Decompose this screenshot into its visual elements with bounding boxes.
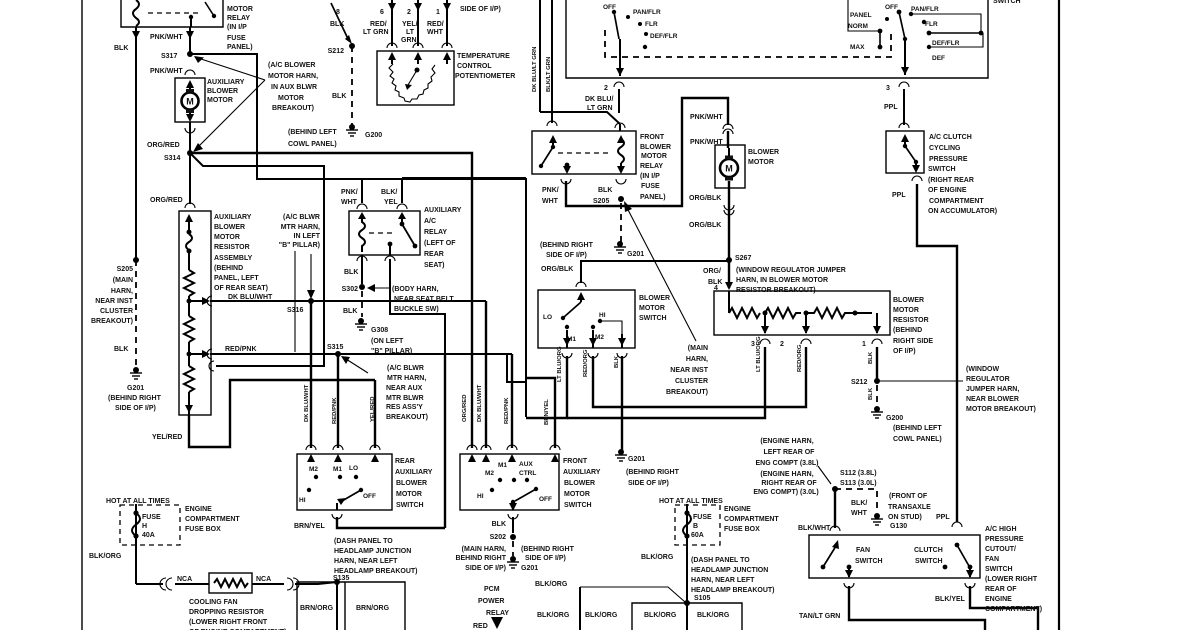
svg-text:G201: G201 <box>127 385 144 392</box>
ground G201 below switch <box>615 449 627 461</box>
svg-text:CUTOUT/: CUTOUT/ <box>985 546 1016 553</box>
relay switch <box>398 212 406 219</box>
wire BLK dashed to G201 left <box>135 260 137 368</box>
svg-text:S267: S267 <box>735 255 751 262</box>
svg-text:DEF/FLR: DEF/FLR <box>932 40 960 47</box>
ground G200 right <box>871 406 883 418</box>
wire DK BLU/WHT y=301 <box>207 296 212 306</box>
svg-text:(BEHIND RIGHT: (BEHIND RIGHT <box>626 469 680 476</box>
svg-text:BLK: BLK <box>343 308 357 315</box>
wire BLK + splice S202 + G201 <box>512 517 514 533</box>
svg-text:PCM: PCM <box>484 586 500 593</box>
svg-text:POWER: POWER <box>478 598 504 605</box>
svg-text:PANEL): PANEL) <box>227 44 253 51</box>
svg-text:G201: G201 <box>627 251 644 258</box>
svg-text:(IN I/P: (IN I/P <box>227 24 247 31</box>
terminal drops <box>764 313 766 333</box>
splice S267 <box>726 257 732 263</box>
svg-text:M: M <box>186 97 194 107</box>
svg-text:YEL/RED: YEL/RED <box>152 434 182 441</box>
svg-text:LT BLU/ORG: LT BLU/ORG <box>557 346 563 382</box>
svg-text:MOTOR: MOTOR <box>748 159 774 166</box>
tap node with arrow east <box>187 299 192 304</box>
left page border <box>81 0 83 630</box>
svg-text:BLOWER: BLOWER <box>564 480 595 487</box>
svg-text:PNK/: PNK/ <box>341 189 358 196</box>
svg-text:WHT: WHT <box>851 510 868 517</box>
pointer arrows to S317 / S314 <box>198 58 265 80</box>
svg-text:DK BLU/LT GRN: DK BLU/LT GRN <box>532 47 538 92</box>
svg-text:PNK/: PNK/ <box>542 187 559 194</box>
cooling fan dropping resistor box <box>209 573 252 593</box>
blower motor switch box <box>538 290 635 348</box>
pointer stub <box>294 251 296 352</box>
svg-text:BLK: BLK <box>330 21 344 28</box>
svg-text:S302: S302 <box>342 286 358 293</box>
svg-text:BRN/YEL: BRN/YEL <box>294 523 325 530</box>
svg-text:CYCLING: CYCLING <box>929 145 961 152</box>
svg-text:OF REAR SEAT): OF REAR SEAT) <box>214 285 268 292</box>
svg-text:HEADLAMP BREAKOUT): HEADLAMP BREAKOUT) <box>691 587 774 594</box>
svg-text:G200: G200 <box>365 132 382 139</box>
svg-text:(RIGHT REAR: (RIGHT REAR <box>928 177 974 184</box>
svg-text:RIGHT SIDE: RIGHT SIDE <box>893 338 933 345</box>
wire NCA to cooling fan dropping resistor <box>136 583 163 585</box>
svg-text:(ON LEFT: (ON LEFT <box>371 338 404 345</box>
svg-text:BLOWER: BLOWER <box>893 297 924 304</box>
splice S316 <box>308 298 314 304</box>
blower motor resistor box <box>714 291 890 335</box>
wire ORG/BLK below motor <box>728 181 730 288</box>
clutch switch exit BLK/YEL <box>969 569 971 577</box>
svg-text:MTR BLWR: MTR BLWR <box>386 395 424 402</box>
svg-text:BLK/ORG: BLK/ORG <box>644 612 677 619</box>
svg-text:(BEHIND RIGHT: (BEHIND RIGHT <box>108 395 162 402</box>
svg-text:BUCKLE SW): BUCKLE SW) <box>394 306 439 313</box>
svg-text:RESISTOR: RESISTOR <box>893 317 929 324</box>
svg-text:BLK/ORG: BLK/ORG <box>89 553 122 560</box>
svg-text:CTRL: CTRL <box>519 470 536 477</box>
svg-text:SIDE OF I/P): SIDE OF I/P) <box>465 565 506 572</box>
splice S315 <box>335 351 341 357</box>
relay K1 coil <box>133 0 139 26</box>
svg-text:SWITCH: SWITCH <box>396 502 424 509</box>
wire jog to x507 <box>507 354 526 382</box>
pointer from body harn text <box>372 287 390 289</box>
svg-text:HEADLAMP JUNCTION: HEADLAMP JUNCTION <box>691 567 768 574</box>
relay K1 box (aux blower motor relay, cut at top) <box>121 0 223 27</box>
svg-text:AUXILIARY: AUXILIARY <box>424 207 462 214</box>
svg-text:BLK/ORG: BLK/ORG <box>697 612 730 619</box>
svg-text:RED/ORG: RED/ORG <box>797 344 803 372</box>
wire PNK/WHT relay to blower motor <box>566 98 728 206</box>
svg-text:M2: M2 <box>485 470 494 477</box>
svg-text:FUSE: FUSE <box>693 514 712 521</box>
svg-text:A/C HIGH: A/C HIGH <box>985 526 1017 533</box>
aux blower motor resistor assembly box <box>179 211 211 415</box>
svg-text:BRN/YEL: BRN/YEL <box>544 399 550 425</box>
bottom left box BRN/ORG <box>297 582 405 630</box>
wire LT BLU/ORG net <box>526 356 567 418</box>
svg-text:FLR: FLR <box>645 21 658 28</box>
svg-text:(LEFT OF: (LEFT OF <box>424 240 456 247</box>
ground G201 left <box>130 367 142 379</box>
svg-text:G308: G308 <box>371 327 388 334</box>
svg-text:BLOWER: BLOWER <box>748 149 779 156</box>
svg-text:MOTOR HARN,: MOTOR HARN, <box>268 73 318 80</box>
wire RED/ORG net <box>593 347 806 407</box>
svg-text:BLK/: BLK/ <box>851 500 867 507</box>
svg-text:PANEL: PANEL <box>850 12 872 19</box>
svg-text:REAR: REAR <box>395 458 415 465</box>
svg-text:COWL PANEL): COWL PANEL) <box>893 436 942 443</box>
pointer from S205 to main harn text <box>625 204 696 341</box>
svg-text:NEAR INST: NEAR INST <box>670 367 708 374</box>
svg-text:YEL: YEL <box>384 199 398 206</box>
svg-text:OFF: OFF <box>885 4 898 11</box>
svg-text:RED: RED <box>473 623 488 630</box>
svg-text:BLOWER: BLOWER <box>207 88 238 95</box>
svg-text:MOTOR: MOTOR <box>278 95 304 102</box>
svg-text:JUMPER HARN,: JUMPER HARN, <box>966 386 1019 393</box>
svg-text:PANEL, LEFT: PANEL, LEFT <box>214 275 259 282</box>
wire BLK from relay <box>135 27 137 260</box>
svg-text:HI: HI <box>599 312 606 319</box>
svg-text:S205: S205 <box>117 266 133 273</box>
svg-text:NCA: NCA <box>177 576 192 583</box>
svg-text:BRN/ORG: BRN/ORG <box>300 605 334 612</box>
svg-text:MTR HARN,: MTR HARN, <box>387 375 426 382</box>
svg-text:FUSE BOX: FUSE BOX <box>724 526 760 533</box>
svg-text:(BODY HARN,: (BODY HARN, <box>392 286 439 293</box>
wire PNK/WHT net from S317 to aux A/C relay <box>190 54 526 417</box>
wires into rear aux switch <box>310 301 312 448</box>
svg-text:(A/C BLOWER: (A/C BLOWER <box>268 62 315 69</box>
front auxiliary blower switch box <box>460 454 559 510</box>
svg-text:HEADLAMP BREAKOUT): HEADLAMP BREAKOUT) <box>334 568 417 575</box>
resistor zigzag 1 <box>184 270 194 296</box>
splice S314 <box>187 150 193 156</box>
svg-text:GRN: GRN <box>401 37 417 44</box>
svg-text:OFF: OFF <box>363 493 376 500</box>
coil <box>186 234 192 250</box>
svg-text:RES ASS'Y: RES ASS'Y <box>386 404 423 411</box>
potentiometer zigzag arc <box>389 64 435 102</box>
svg-text:(A/C BLWR: (A/C BLWR <box>283 214 320 221</box>
svg-text:PRESSURE: PRESSURE <box>929 156 968 163</box>
svg-text:BLK: BLK <box>492 521 506 528</box>
svg-text:(LOWER RIGHT FRONT: (LOWER RIGHT FRONT <box>189 619 268 626</box>
svg-text:(BEHIND LEFT: (BEHIND LEFT <box>893 425 942 432</box>
svg-text:POTENTIOMETER: POTENTIOMETER <box>455 73 515 80</box>
svg-text:2: 2 <box>407 9 411 16</box>
svg-text:LO: LO <box>349 465 358 472</box>
svg-text:(ENGINE HARN,: (ENGINE HARN, <box>760 471 813 478</box>
svg-text:ENGINE: ENGINE <box>724 506 751 513</box>
svg-text:OF ENGINE: OF ENGINE <box>928 187 967 194</box>
svg-text:RELAY: RELAY <box>640 163 663 170</box>
svg-text:MTR HARN,: MTR HARN, <box>281 224 320 231</box>
svg-text:G201: G201 <box>628 456 645 463</box>
svg-text:BLK: BLK <box>344 269 358 276</box>
wire ORG/RED line B: S314 to resistor assembly bottom <box>190 153 324 366</box>
svg-text:S112 (3.8L): S112 (3.8L) <box>840 470 877 477</box>
svg-text:(WINDOW REGULATOR JUMPER: (WINDOW REGULATOR JUMPER <box>736 267 846 274</box>
svg-text:MOTOR: MOTOR <box>227 6 253 13</box>
svg-text:RED/PNK: RED/PNK <box>332 397 338 424</box>
svg-text:BLK/YEL: BLK/YEL <box>935 596 966 603</box>
svg-text:BLK: BLK <box>114 346 128 353</box>
svg-text:REGULATOR: REGULATOR <box>966 376 1010 383</box>
svg-text:ASSEMBLY: ASSEMBLY <box>214 255 253 262</box>
wire YEL/RED from resistor bottom <box>189 380 375 447</box>
fan switch / clutch switch box <box>809 535 980 578</box>
svg-text:YEL/: YEL/ <box>402 21 418 28</box>
svg-text:H: H <box>142 523 147 530</box>
svg-text:FAN: FAN <box>985 556 999 563</box>
svg-text:PNK/WHT: PNK/WHT <box>150 34 183 41</box>
svg-text:AUXILIARY: AUXILIARY <box>563 469 601 476</box>
svg-text:ORG/: ORG/ <box>703 268 721 275</box>
svg-text:ON ACCUMULATOR): ON ACCUMULATOR) <box>928 208 997 215</box>
fan switch exit TAN/LT GRN <box>848 569 850 577</box>
svg-text:COMPARTMENT: COMPARTMENT <box>724 516 779 523</box>
svg-text:NORM: NORM <box>848 23 868 30</box>
svg-text:FRONT: FRONT <box>563 458 588 465</box>
svg-text:40A: 40A <box>142 532 155 539</box>
svg-text:(BEHIND RIGHT: (BEHIND RIGHT <box>540 242 594 249</box>
svg-text:NEAR BLOWER: NEAR BLOWER <box>966 396 1019 403</box>
svg-text:BREAKOUT): BREAKOUT) <box>386 414 428 421</box>
aux A/C relay box <box>349 211 420 255</box>
svg-text:TAN/LT GRN: TAN/LT GRN <box>799 613 840 620</box>
rear aux switch internals <box>307 454 315 462</box>
splice S317 <box>187 51 193 57</box>
svg-text:M2: M2 <box>309 466 318 473</box>
svg-text:RED/: RED/ <box>370 21 387 28</box>
wire BLK below relay <box>357 256 367 261</box>
svg-text:ENGINE: ENGINE <box>185 506 212 513</box>
connector arcs below relay <box>561 179 571 184</box>
svg-text:60A: 60A <box>691 532 704 539</box>
svg-text:1: 1 <box>862 341 866 348</box>
svg-text:TEMPERATURE: TEMPERATURE <box>457 53 510 60</box>
svg-text:BLK: BLK <box>868 351 874 364</box>
svg-text:BLK: BLK <box>598 187 612 194</box>
wire BLK dashed to G200 <box>351 46 353 125</box>
svg-text:PPL: PPL <box>892 192 906 199</box>
svg-text:MOTOR: MOTOR <box>893 307 919 314</box>
wire into S105 from west <box>580 587 685 602</box>
svg-text:FUSE: FUSE <box>227 35 246 42</box>
svg-text:SIDE OF I/P): SIDE OF I/P) <box>460 6 501 13</box>
svg-text:AUXILIARY: AUXILIARY <box>395 469 433 476</box>
svg-text:8: 8 <box>336 9 340 16</box>
svg-text:SWITCH: SWITCH <box>928 166 956 173</box>
svg-text:2: 2 <box>604 85 608 92</box>
svg-text:G200: G200 <box>886 415 903 422</box>
svg-text:BLK/ORG: BLK/ORG <box>537 612 570 619</box>
svg-text:(FRONT OF: (FRONT OF <box>889 493 928 500</box>
svg-text:NCA: NCA <box>256 576 271 583</box>
svg-text:FUSE: FUSE <box>641 183 660 190</box>
svg-text:SIDE OF I/P): SIDE OF I/P) <box>525 555 566 562</box>
svg-text:SWITCH: SWITCH <box>855 558 883 565</box>
svg-text:MOTOR: MOTOR <box>207 97 233 104</box>
resistor zigzag 3 <box>184 366 194 392</box>
svg-text:PANEL): PANEL) <box>640 194 666 201</box>
svg-text:ORG/BLK: ORG/BLK <box>689 195 721 202</box>
dashed vacuum box <box>605 30 891 57</box>
svg-text:DEF/FLR: DEF/FLR <box>650 33 678 40</box>
svg-text:IN AUX BLWR: IN AUX BLWR <box>271 84 317 91</box>
svg-text:M: M <box>725 164 733 174</box>
wire BLK/WHT to fan switch <box>834 489 836 528</box>
svg-text:(WINDOW: (WINDOW <box>966 366 999 373</box>
svg-text:WHT: WHT <box>427 29 444 36</box>
svg-text:ENGINE: ENGINE <box>985 596 1012 603</box>
svg-text:HARN, NEAR LEFT: HARN, NEAR LEFT <box>691 577 755 584</box>
dashed BLK/WHT to G130 <box>835 489 877 513</box>
svg-text:SWITCH: SWITCH <box>639 315 667 322</box>
svg-text:COMPARTMENT: COMPARTMENT <box>185 516 240 523</box>
svg-text:DK BLU/WHT: DK BLU/WHT <box>477 384 483 422</box>
svg-text:LT BLU/ORG: LT BLU/ORG <box>756 336 762 372</box>
svg-text:RED/PNK: RED/PNK <box>504 397 510 424</box>
svg-text:COMPARTMENT): COMPARTMENT) <box>985 606 1042 613</box>
svg-text:DK BLU/WHT: DK BLU/WHT <box>228 294 273 301</box>
svg-text:M1: M1 <box>333 466 342 473</box>
ground G130 <box>871 513 883 525</box>
svg-text:RED/: RED/ <box>427 21 444 28</box>
svg-text:(IN I/P: (IN I/P <box>640 173 660 180</box>
svg-text:FAN: FAN <box>856 547 870 554</box>
rear auxiliary blower motor switch box <box>297 454 392 510</box>
svg-text:MOTOR: MOTOR <box>641 153 667 160</box>
svg-text:SIDE OF I/P): SIDE OF I/P) <box>115 405 156 412</box>
splice S212 top (8 BLK wire) <box>331 3 349 41</box>
svg-text:B: B <box>693 523 698 530</box>
svg-text:BLK/ORG: BLK/ORG <box>641 554 674 561</box>
svg-text:RELAY: RELAY <box>227 15 250 22</box>
svg-text:HI: HI <box>299 497 306 504</box>
wire BRN/YEL to front aux switch <box>526 378 555 448</box>
svg-text:(MAIN: (MAIN <box>688 345 708 352</box>
svg-text:"B" PILLAR): "B" PILLAR) <box>279 242 320 249</box>
svg-text:S212: S212 <box>851 379 867 386</box>
svg-text:(A/C BLWR: (A/C BLWR <box>387 365 424 372</box>
svg-text:RELAY: RELAY <box>424 229 447 236</box>
wire branch to aux A/C relay coil <box>361 179 363 203</box>
wires DK BLU/LT GRN + BLK/LT GRN from top <box>539 0 541 112</box>
svg-text:BLK: BLK <box>614 355 620 368</box>
svg-text:HARN,: HARN, <box>111 288 133 295</box>
svg-text:(DASH PANEL TO: (DASH PANEL TO <box>691 557 750 564</box>
svg-text:M2: M2 <box>595 334 604 341</box>
svg-text:MOTOR: MOTOR <box>639 305 665 312</box>
svg-text:ORG/RED: ORG/RED <box>150 197 183 204</box>
svg-text:COMPARTMENT: COMPARTMENT <box>929 198 984 205</box>
svg-text:SWITCH: SWITCH <box>915 558 943 565</box>
svg-text:FLR: FLR <box>925 21 938 28</box>
svg-text:PNK/WHT: PNK/WHT <box>150 68 183 75</box>
svg-text:BLK/ORG: BLK/ORG <box>535 581 568 588</box>
svg-text:A/C: A/C <box>424 218 436 225</box>
wire BLK to G201 <box>621 356 623 450</box>
blower motor box <box>715 145 745 188</box>
svg-text:PAN/FLR: PAN/FLR <box>911 6 939 13</box>
svg-text:SWITCH: SWITCH <box>564 502 592 509</box>
svg-text:DROPPING RESISTOR: DROPPING RESISTOR <box>189 609 264 616</box>
svg-text:ORG/BLK: ORG/BLK <box>689 222 721 229</box>
connector at y=366 <box>209 361 214 371</box>
aux blower motor symbol <box>182 93 199 110</box>
svg-text:REAR: REAR <box>424 251 444 258</box>
svg-text:YEL/RED: YEL/RED <box>370 396 376 422</box>
svg-text:S212: S212 <box>328 48 344 55</box>
svg-text:(MAIN HARN,: (MAIN HARN, <box>462 546 506 553</box>
potentiometer wiper <box>415 68 420 73</box>
svg-text:BREAKOUT): BREAKOUT) <box>272 105 314 112</box>
svg-text:COOLING FAN: COOLING FAN <box>189 599 238 606</box>
svg-text:PAN/FLR: PAN/FLR <box>633 9 661 16</box>
svg-text:2: 2 <box>780 341 784 348</box>
svg-text:HARN, IN BLOWER MOTOR: HARN, IN BLOWER MOTOR <box>736 277 828 284</box>
svg-text:BEHIND RIGHT: BEHIND RIGHT <box>455 555 506 562</box>
svg-text:NEAR AUX: NEAR AUX <box>386 385 423 392</box>
svg-text:S317: S317 <box>161 53 177 60</box>
svg-text:AUXILIARY: AUXILIARY <box>214 214 252 221</box>
svg-text:CLUTCH: CLUTCH <box>914 547 943 554</box>
svg-text:BLK/: BLK/ <box>381 189 397 196</box>
right page border <box>1058 0 1060 630</box>
pointer from b-pillar text to S316 <box>310 254 312 294</box>
svg-text:PPL: PPL <box>936 514 950 521</box>
svg-text:MOTOR BREAKOUT): MOTOR BREAKOUT) <box>966 406 1036 413</box>
svg-text:NEAR INST: NEAR INST <box>95 298 133 305</box>
svg-text:LT GRN: LT GRN <box>363 29 389 36</box>
svg-text:SWITCH: SWITCH <box>985 566 1013 573</box>
svg-text:(LOWER RIGHT: (LOWER RIGHT <box>985 576 1038 583</box>
svg-text:FUSE: FUSE <box>142 514 161 521</box>
splice S105 <box>684 600 690 606</box>
wire ORG/RED below motor <box>189 122 191 153</box>
relay K1 switch blade <box>205 2 214 16</box>
svg-text:SIDE OF I/P): SIDE OF I/P) <box>546 252 587 259</box>
svg-text:OFF: OFF <box>539 496 552 503</box>
svg-text:SEAT): SEAT) <box>424 262 444 269</box>
svg-text:S205: S205 <box>593 198 609 205</box>
connector arc <box>357 204 367 209</box>
svg-text:SWITCH: SWITCH <box>993 0 1021 5</box>
svg-text:FUSE BOX: FUSE BOX <box>185 526 221 533</box>
wire RED/PNK y=354 <box>207 349 212 359</box>
svg-text:ON STUD): ON STUD) <box>888 514 922 521</box>
svg-text:(MAIN: (MAIN <box>113 277 133 284</box>
svg-text:LT GRN: LT GRN <box>587 105 613 112</box>
relay K1 dashed link <box>148 12 200 14</box>
wire BLK dashed to G308 <box>361 291 363 317</box>
svg-text:SIDE OF I/P): SIDE OF I/P) <box>628 480 669 487</box>
resistor zigzag 2 <box>184 316 194 342</box>
pointer to S112 <box>818 466 831 484</box>
svg-text:S314: S314 <box>164 155 180 162</box>
svg-text:REAR OF: REAR OF <box>985 586 1017 593</box>
svg-text:A/C CLUTCH: A/C CLUTCH <box>929 134 972 141</box>
svg-text:1: 1 <box>436 9 440 16</box>
svg-text:WHT: WHT <box>542 198 559 205</box>
svg-text:HARN, NEAR LEFT: HARN, NEAR LEFT <box>334 558 398 565</box>
